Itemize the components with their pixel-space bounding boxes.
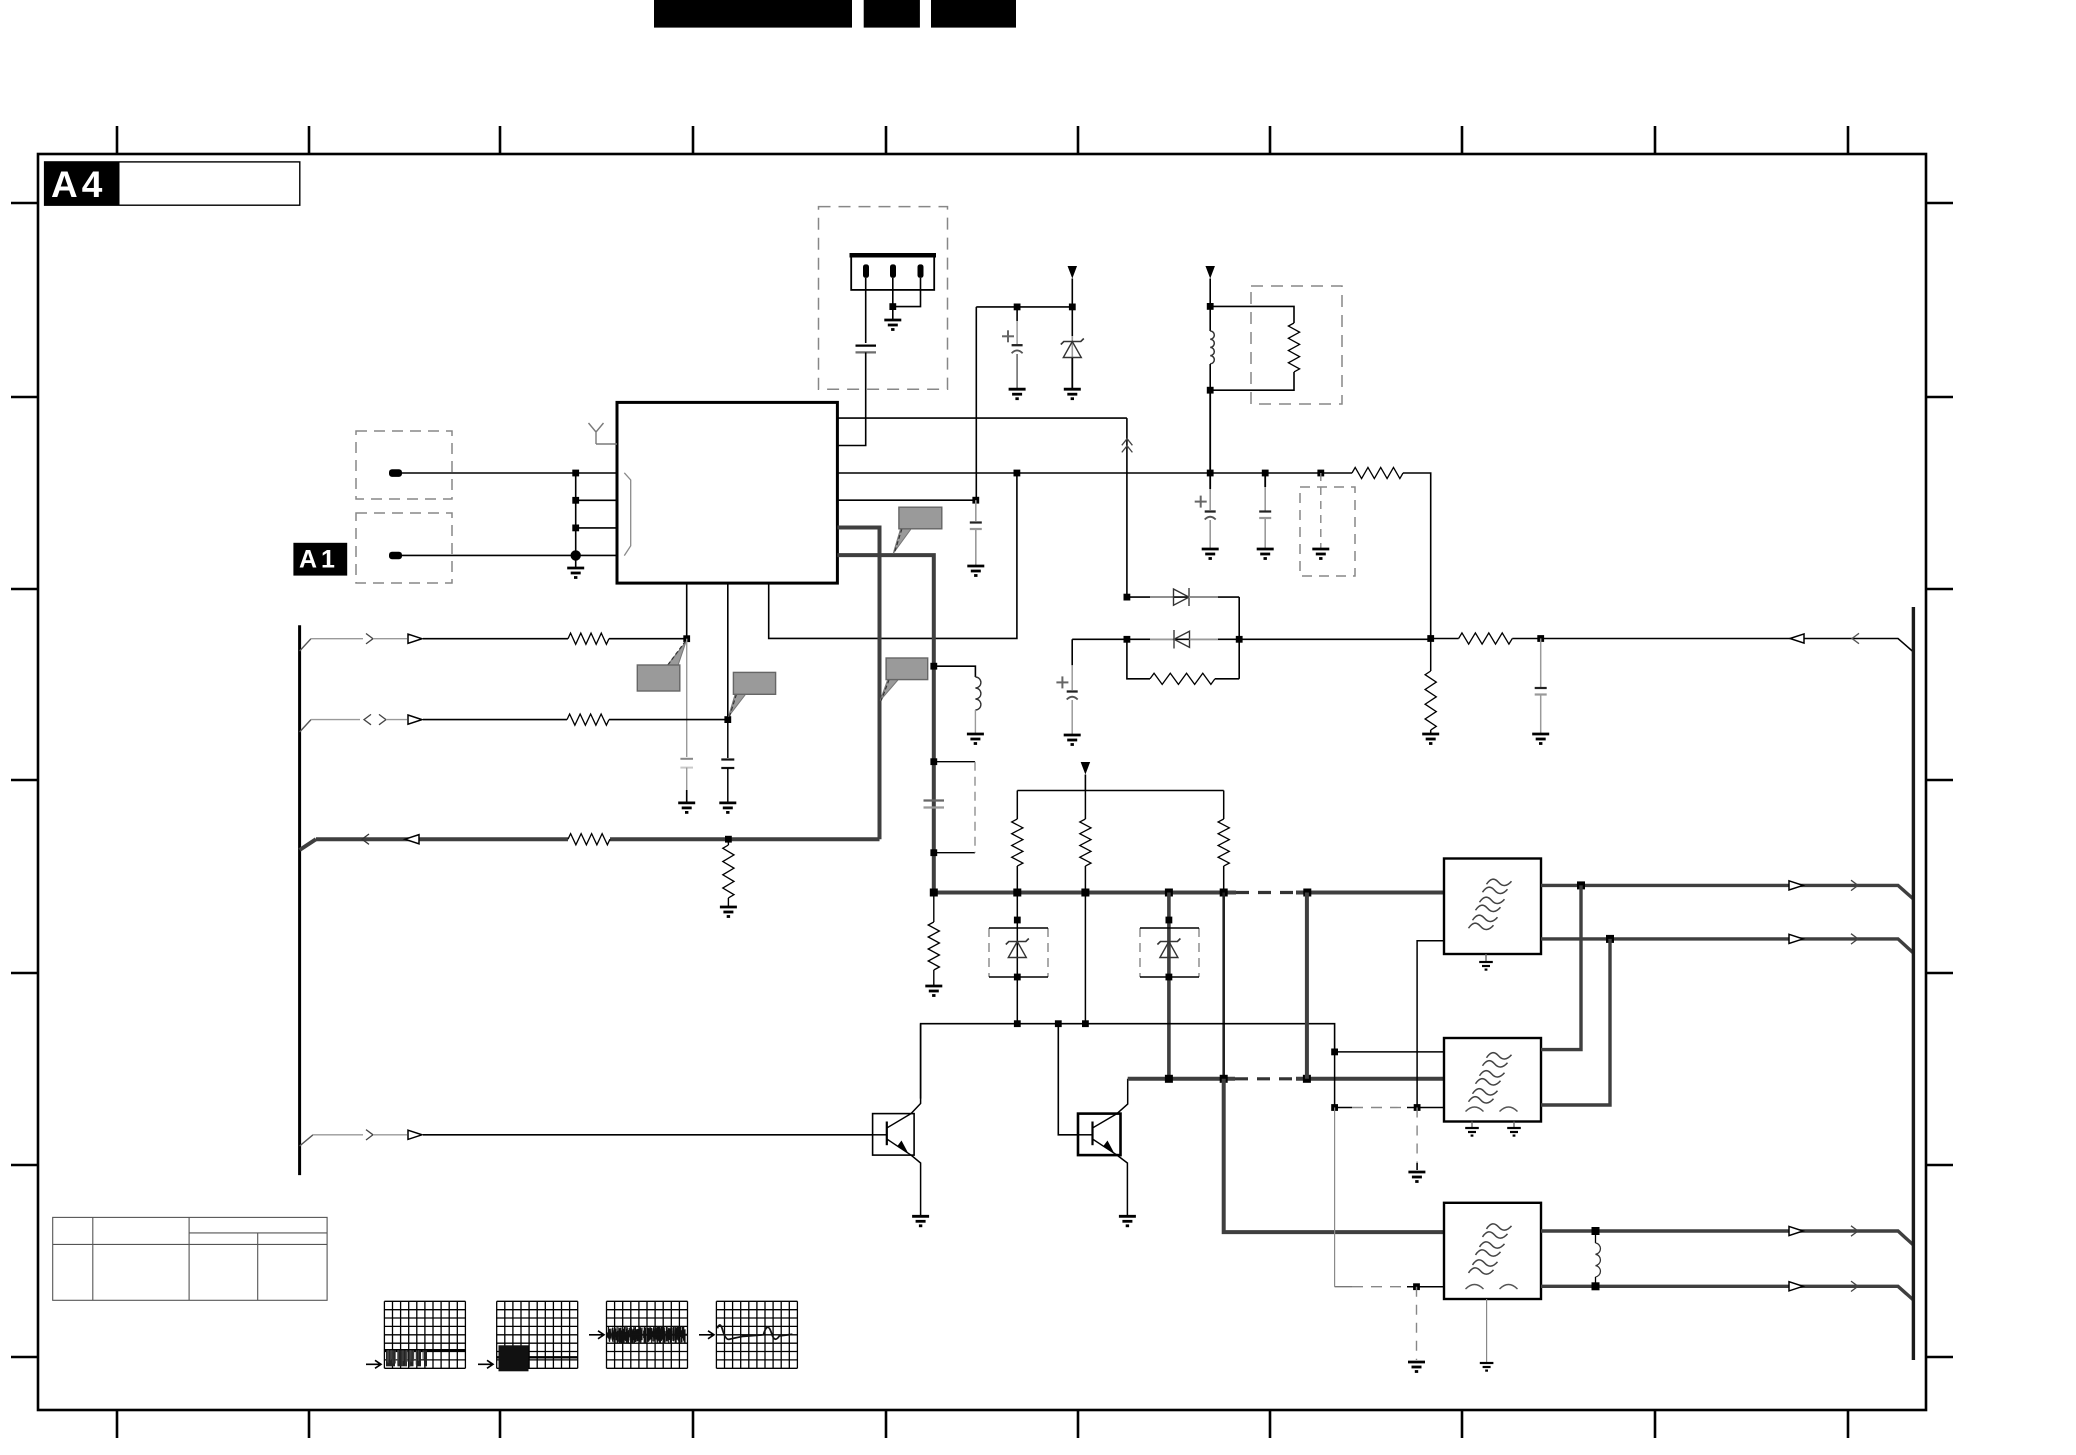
- wire SAW2 input 1: [1335, 1051, 1444, 1053]
- connector J1 pin 3: [918, 264, 924, 278]
- ground at dashed stub: [1408, 1172, 1425, 1182]
- ground at FL3: [1486, 1299, 1488, 1362]
- capacitor C8 on IF wire: [924, 799, 945, 801]
- wire riser to SAW1 input 2: [1417, 941, 1444, 1108]
- node FL1 out2: [1606, 935, 1614, 943]
- arrow AGC direction (open triangle left): [1790, 634, 1804, 643]
- ground in shield box: [1312, 549, 1329, 559]
- wire Q2 emitter to ground: [1117, 1155, 1127, 1216]
- wire R2 to feedback corner: [1403, 473, 1431, 639]
- inductor L1: [1209, 306, 1211, 331]
- node bus-col1017: [1014, 470, 1021, 477]
- wire (thick) IF bus upper: [934, 891, 1236, 895]
- arrow IF3 chevron: [1851, 1226, 1858, 1236]
- resistor R9 to ground: [727, 839, 729, 845]
- redacted title text bar 1: [654, 0, 852, 28]
- connector J3 dashed enclosure: [356, 513, 452, 583]
- wire shield dashed stub: [1320, 473, 1322, 549]
- wire L1 to main bus: [1209, 390, 1211, 473]
- filter FL2 (SAW): [1444, 1038, 1541, 1122]
- wire diode block middle row: [1072, 638, 1239, 640]
- capacitor C10 below pinB: [727, 720, 729, 758]
- probe flag F3: [880, 679, 899, 701]
- dashed stub to ground: [1416, 1108, 1418, 1164]
- capacitor C9 below pinA: [686, 639, 688, 757]
- wire U1 left pin stubs and input column: [575, 473, 577, 568]
- redacted title text bar 3: [931, 0, 1016, 28]
- ground at C6: [1064, 735, 1081, 745]
- node supply1: [1069, 304, 1076, 311]
- ground at C4: [1257, 549, 1274, 559]
- wire diode block right column: [1238, 597, 1240, 679]
- transistor Q2: [1078, 1114, 1121, 1156]
- waveform grid W3: [607, 1301, 688, 1368]
- capacitor C3 electrolytic at supply2: [1209, 473, 1211, 489]
- node SAW3 in2 link: [1413, 1283, 1420, 1290]
- wire RF node down with up-arrows: [1126, 418, 1128, 597]
- node AGC-R4: [1427, 635, 1434, 642]
- wire supply3 to rail: [1084, 775, 1086, 791]
- capacitor C7: [1540, 639, 1542, 688]
- resistor R2 on bus: [1352, 467, 1403, 478]
- arrow IF4 chevron: [1851, 1281, 1858, 1291]
- ground at U1 input column: [567, 568, 584, 578]
- shield dashed enclosure: [1300, 487, 1355, 576]
- waveform W2 burst: [497, 1356, 578, 1358]
- wire Q2 collector: [1117, 1079, 1128, 1114]
- node U1 input pin 2: [572, 497, 579, 504]
- connector J1 dashed enclosure: [819, 207, 948, 390]
- ground at C7: [1532, 734, 1549, 744]
- wire R12 column down to lower bus: [1222, 893, 1225, 1079]
- node J1 ground junction: [889, 303, 896, 310]
- waveform grid W2: [497, 1301, 578, 1368]
- resistor R3 in diode block: [1150, 673, 1215, 684]
- node diode block left top: [1124, 594, 1131, 601]
- node C5: [972, 497, 979, 504]
- node diode block left middle: [1124, 636, 1131, 643]
- wire (thick) IF2 output: [1541, 939, 1913, 953]
- wire col to dashed node: [1334, 1052, 1336, 1108]
- electrolytic C6 on AGC line: [1071, 639, 1073, 665]
- waveform W1 pulse train: [384, 1349, 465, 1352]
- drawing frame border: [38, 154, 1926, 1410]
- ground at R13: [925, 986, 942, 996]
- resistor R7 row2: [567, 714, 609, 725]
- node FL1 out1: [1577, 881, 1585, 889]
- resistor R12: [1223, 791, 1225, 820]
- connector J2 pin: [389, 469, 402, 477]
- ground at C10: [719, 803, 736, 813]
- node U1 input pin 1: [572, 470, 579, 477]
- connector J1 pin 2: [890, 264, 896, 278]
- arrow IF4 open triangle: [1789, 1282, 1803, 1291]
- arrow W4 input: [699, 1331, 714, 1339]
- wire (thick) U1 IF output 2: [837, 555, 933, 892]
- wire row1 from bus: [300, 639, 311, 651]
- arrow IF2 chevron: [1851, 934, 1858, 944]
- capacitor C2 electrolytic: [1016, 307, 1018, 321]
- connector J3 pin: [389, 552, 402, 560]
- arrow IF2 open triangle: [1789, 934, 1803, 943]
- wire AGC row to right: [1239, 638, 1431, 640]
- wire bias rail: [1017, 790, 1223, 792]
- node col-T2base: [1055, 1020, 1062, 1027]
- wire C1 to U1 pin: [837, 352, 865, 445]
- probe flag F1: [667, 642, 686, 666]
- power arrow supply 2: [1205, 266, 1215, 279]
- connector J2 dashed enclosure: [356, 431, 452, 499]
- power arrow supply 1: [1068, 266, 1078, 279]
- wire U1 bottom pin B: [727, 583, 729, 720]
- resistor R5 to ground: [1430, 639, 1432, 672]
- arrow IF1 open triangle: [1789, 881, 1803, 890]
- wire bus down to pin wire (col 1017): [769, 473, 1017, 638]
- node FL3 out2: [1592, 1282, 1600, 1290]
- node L1 bottom: [1207, 387, 1214, 394]
- filter FL3 (SAW): [1444, 1203, 1541, 1299]
- node bus-shield: [1317, 470, 1324, 477]
- transistor Q1: [873, 1114, 915, 1156]
- probe flag F4: [893, 528, 912, 554]
- wire row4 from bus to Q1 base: [300, 1135, 313, 1146]
- wire diode block bottom row: [1127, 639, 1150, 679]
- sheet label A4: [45, 162, 300, 205]
- op-amp / IC U1 main block: [617, 402, 837, 583]
- waveform grid W4: [716, 1301, 797, 1368]
- node bus-supply2: [1207, 470, 1214, 477]
- ground at Q1 emitter: [912, 1216, 929, 1226]
- node col-D4: [1014, 1020, 1021, 1027]
- frame ruler ticks left: [11, 203, 38, 1357]
- diode D2 (right pointing): [1150, 588, 1218, 606]
- ground at R9: [720, 907, 737, 917]
- dashed component box on IF wire: [934, 761, 975, 763]
- wire R11 column to collector net: [1084, 893, 1086, 1024]
- wire supply1 to node: [1071, 279, 1073, 307]
- resistor R13 below bus: [933, 893, 935, 923]
- node col-R11: [1082, 1020, 1089, 1027]
- node IF tap: [930, 758, 937, 765]
- svg-text:A4: A4: [51, 164, 106, 205]
- diode D3 (left pointing): [1150, 630, 1218, 649]
- wire row3 (thick) from bus: [300, 839, 316, 850]
- wire (thick) IF3 output: [1541, 1231, 1913, 1245]
- arrow W1 input: [366, 1360, 381, 1368]
- node SAW2 in1: [1331, 1049, 1338, 1056]
- wire (thick) U1 IF output 1: [837, 528, 879, 840]
- wire (gray) col down to SAW3 input 2: [1334, 1108, 1336, 1287]
- wire J2 pin to U1: [402, 472, 617, 474]
- dashed enclosure around R1: [1251, 286, 1342, 404]
- node bus-C4: [1262, 470, 1269, 477]
- wire AGC input from frame right: [1541, 639, 1914, 653]
- arrow W3 input: [589, 1331, 604, 1339]
- ground at SAW3 stub: [1408, 1362, 1425, 1372]
- waveform W3 noise band: [608, 1326, 685, 1344]
- wire supply2 down: [1209, 279, 1211, 307]
- notes table: [53, 1217, 327, 1300]
- bus vertical left: [298, 625, 301, 1175]
- ground at R5: [1422, 734, 1439, 744]
- node bus lower junctions: [1165, 1075, 1173, 1083]
- ground at FL1: [1485, 954, 1487, 962]
- node U1 input pin 4: [571, 550, 581, 560]
- ground at C9: [678, 803, 695, 813]
- wire row2 from bus: [300, 720, 311, 732]
- wire (thick) R12 column to SAW3: [1224, 1079, 1444, 1232]
- resistor R11: [1084, 791, 1086, 820]
- ground at L2: [967, 734, 984, 744]
- wire Q1 collector: [911, 1024, 921, 1114]
- capacitor C5: [975, 500, 977, 521]
- dashed stub to ground at SAW3: [1416, 1287, 1418, 1360]
- frame ruler ticks top: [117, 126, 1848, 154]
- node row2-pinB: [724, 716, 731, 723]
- frame ruler ticks right: [1926, 203, 1953, 1357]
- connector J1 pin 1: [863, 264, 869, 278]
- capacitor C1 (antenna coupling): [856, 345, 877, 347]
- node dashed link right: [1414, 1104, 1421, 1111]
- node R4-C7: [1537, 635, 1544, 642]
- wire T1 collector net: [921, 1024, 1335, 1099]
- node diode block right middle: [1236, 636, 1243, 643]
- frame ruler ticks bottom: [117, 1410, 1848, 1438]
- svg-text:A1: A1: [299, 546, 339, 574]
- capacitor C4: [1264, 473, 1266, 487]
- ground at Q2 emitter: [1119, 1216, 1136, 1226]
- resistor R8 row3: [568, 834, 610, 845]
- wire supply rail to cap column: [976, 306, 1072, 308]
- wire U1 pin to RF node: [837, 417, 1127, 419]
- arrow IF3 open triangle: [1789, 1226, 1803, 1235]
- inductor L3 between FL3 outputs: [1595, 1231, 1597, 1243]
- connector J1 body: [851, 255, 934, 290]
- resistor R1 parallel with L1: [1210, 306, 1294, 323]
- sheet reference label A1: [293, 543, 347, 576]
- wire main supply bus y473: [837, 472, 1352, 474]
- wire U1 bottom pin A: [686, 583, 688, 639]
- filter FL1 (SAW): [1444, 859, 1541, 955]
- power arrow supply 3: [1081, 762, 1091, 775]
- diode D4 zener with dashed box: [1016, 893, 1018, 1024]
- wire (thick) IF1 output: [1541, 885, 1913, 899]
- antenna symbol at U1 input: [589, 423, 618, 444]
- probe flag F2: [729, 693, 747, 716]
- ground at FL2 pin a: [1471, 1122, 1473, 1129]
- node IF inductor tap: [930, 663, 937, 670]
- wire Q1 emitter to ground: [911, 1155, 921, 1216]
- node L1 top: [1207, 303, 1214, 310]
- wire diode block top row: [1127, 596, 1239, 598]
- ground at D1: [1064, 389, 1081, 399]
- waveform grid W1: [384, 1301, 465, 1368]
- U1 internal bracket (tuner section): [624, 473, 630, 556]
- wire J1 pin2/pin3 to ground: [893, 278, 921, 307]
- arrow IF1 chevron: [1851, 880, 1858, 890]
- wire (thick) FL2 out1 riser: [1541, 885, 1581, 1049]
- node U1 input pin 3: [572, 525, 579, 532]
- wire dashed link to SAW2 input 3: [1335, 1107, 1352, 1109]
- wire U1 pin to C5: [837, 499, 975, 501]
- arrow AGC chevron left: [1852, 633, 1859, 643]
- wire (thick) IF bus lower: [1128, 1077, 1235, 1081]
- ground at C2: [1009, 389, 1026, 399]
- wire node to y473 bus: [975, 307, 977, 500]
- wire (thick) bus interconnect vertical: [1305, 893, 1309, 1079]
- node row1-pinA: [683, 635, 690, 642]
- arrow W2 input: [478, 1360, 493, 1368]
- node dashed link left: [1331, 1104, 1338, 1111]
- arrow signal-direction up chevrons: [1122, 439, 1133, 453]
- wire T2 base feed: [1058, 1024, 1078, 1135]
- wire (thick) IF4 output: [1541, 1286, 1913, 1300]
- ground at FL2 pin b: [1513, 1122, 1515, 1129]
- diode D5 zener with dashed box: [1167, 893, 1171, 1079]
- waveform W4 video line: [717, 1325, 792, 1339]
- node FL3 out1: [1592, 1227, 1600, 1235]
- wire (thick) collector bus vertical at frame right: [1912, 607, 1915, 1360]
- resistor R6 row1: [568, 633, 609, 644]
- resistor R4: [1459, 633, 1513, 644]
- wire J1 pin1 down: [865, 278, 867, 343]
- wire (thick) FL2 out2 riser: [1541, 939, 1610, 1105]
- ground at C5: [967, 566, 984, 576]
- ground at connector J1: [884, 320, 901, 330]
- diode D1 zener: [1071, 307, 1073, 336]
- resistor R10: [1016, 791, 1018, 820]
- ground at C3: [1202, 549, 1219, 559]
- node bus upper junctions: [930, 889, 938, 897]
- redacted title text bar 2: [864, 0, 920, 28]
- node row3-R9: [725, 836, 732, 843]
- wire J3 pin to U1: [402, 554, 617, 556]
- node supply1-C2: [1014, 304, 1021, 311]
- inductor L2 to ground: [934, 666, 976, 677]
